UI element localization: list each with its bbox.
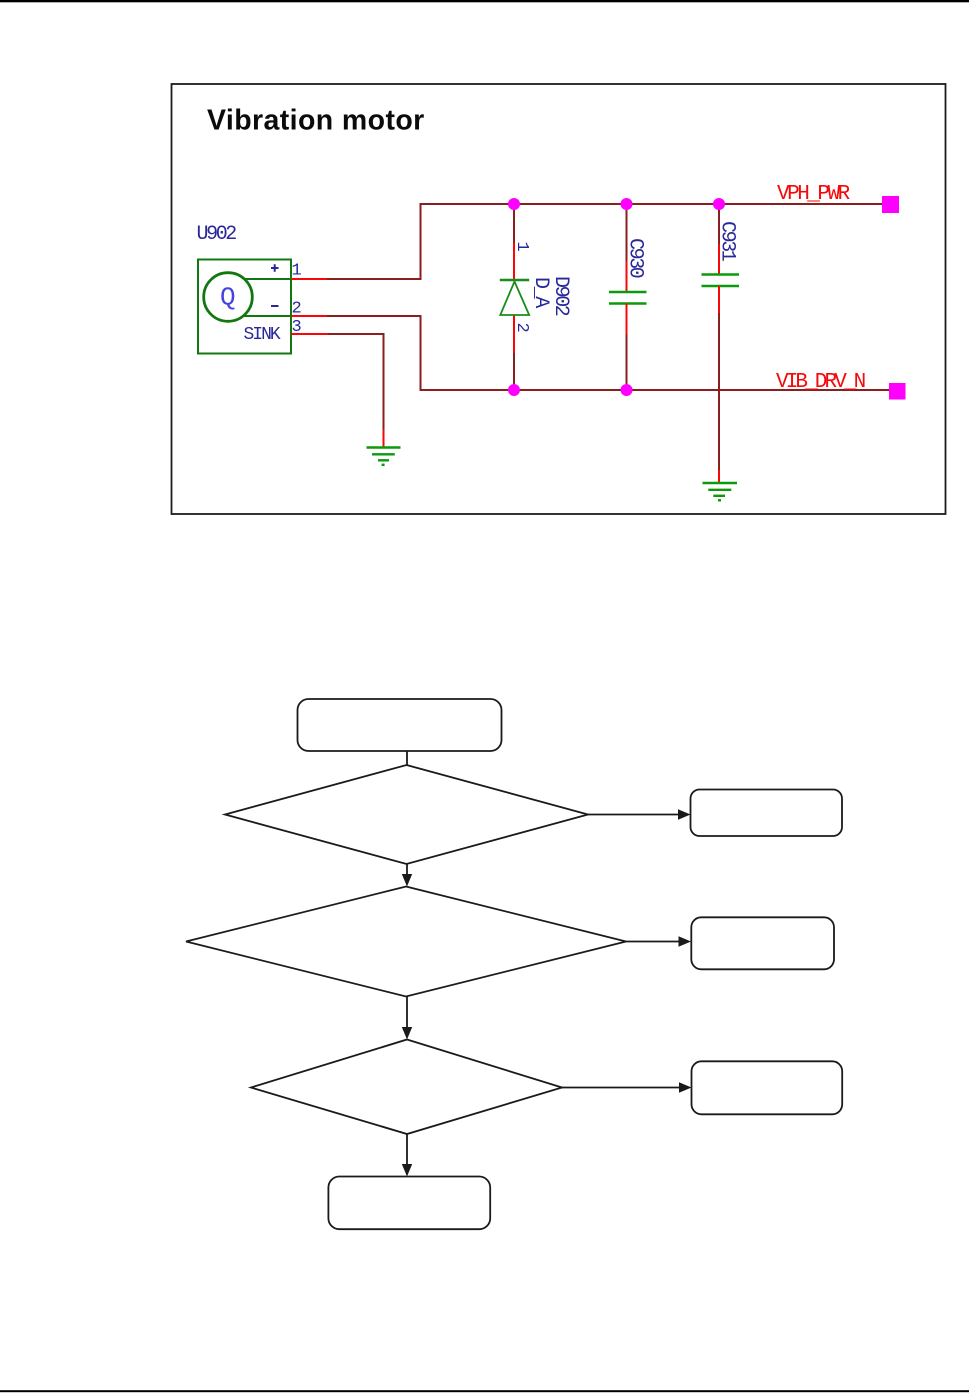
motor U902 circle bbox=[204, 273, 253, 322]
svg-text:C930: C930 bbox=[624, 238, 647, 278]
svg-text:D_A: D_A bbox=[529, 277, 552, 308]
flowchart decision diamond 3 bbox=[251, 1040, 562, 1135]
wire left vertical lower bbox=[420, 315, 422, 391]
capacitor C931 pin stub top bbox=[718, 244, 720, 274]
pin 1 stub bbox=[291, 278, 327, 280]
svg-text:C931: C931 bbox=[716, 221, 739, 262]
ground GND1 pin stub bbox=[383, 430, 385, 448]
svg-text:U902: U902 bbox=[197, 223, 237, 246]
flowchart connector start to decision1 bbox=[406, 751, 408, 765]
capacitor C931 pin stub bottom bbox=[718, 286, 720, 313]
flowchart result box 1 bbox=[691, 790, 843, 837]
capacitor C931 top wire dark bbox=[718, 204, 720, 244]
wire pin3 vertical to ground bbox=[383, 333, 385, 430]
svg-text:SINK: SINK bbox=[244, 325, 281, 345]
flowchart arrow decision1 to decision2 bbox=[402, 864, 412, 887]
capacitor C931 wire to ground bbox=[718, 313, 720, 470]
capacitor C930 top wire dark bbox=[626, 204, 628, 261]
flowchart arrow decision3 to result box 3 bbox=[562, 1082, 692, 1092]
wire bottom rail VIB_DRV_N bbox=[420, 389, 891, 391]
diode D902 pin2 stub bbox=[513, 316, 515, 354]
wire pin2 to left vertical bbox=[327, 315, 421, 317]
motor U902 body box bbox=[198, 260, 291, 354]
svg-text:VIB_DRV_N: VIB_DRV_N bbox=[776, 371, 865, 394]
junction dot bottom rail at diode bbox=[508, 384, 520, 396]
flowchart result box 2 bbox=[691, 917, 834, 969]
capacitor C930 bottom wire dark bbox=[626, 335, 628, 391]
diode D902 pin1 stub bbox=[513, 243, 515, 281]
port square VPH_PWR bbox=[882, 196, 899, 213]
svg-text:VPH_PWR: VPH_PWR bbox=[777, 183, 851, 206]
port square VIB_DRV_N bbox=[889, 383, 906, 400]
junction dot top rail at C931 bbox=[713, 198, 725, 210]
page top rule bbox=[0, 0, 969, 2]
wire top rail VPH_PWR bbox=[420, 203, 884, 205]
wire pin1 to left vertical bbox=[327, 278, 421, 280]
junction dot top rail at diode bbox=[508, 198, 520, 210]
wire left vertical upper bbox=[420, 203, 422, 280]
svg-text:Vibration motor: Vibration motor bbox=[207, 105, 425, 137]
capacitor C930 plates bbox=[609, 292, 647, 304]
ground GND2 symbol bbox=[703, 483, 738, 500]
ground GND2 pin stub bbox=[718, 470, 720, 483]
motor internal lead pin2 bbox=[244, 315, 291, 317]
flowchart result box 3 bbox=[692, 1061, 843, 1114]
flowchart decision diamond 2 bbox=[186, 887, 626, 997]
svg-text:Q: Q bbox=[220, 283, 236, 313]
motor internal lead pin1 bbox=[245, 278, 292, 280]
capacitor C930 pin stub top bbox=[626, 261, 628, 292]
diode D902 top wire dark bbox=[513, 204, 515, 243]
flowchart end box bbox=[328, 1177, 490, 1230]
pin 3 stub bbox=[291, 333, 328, 335]
svg-text:1: 1 bbox=[292, 262, 302, 281]
junction dot top rail at C930 bbox=[621, 198, 633, 210]
flowchart arrow decision3 to end box bbox=[402, 1134, 412, 1177]
flowchart decision diamond 1 bbox=[225, 765, 588, 864]
flowchart start box bbox=[298, 699, 502, 751]
diode D902 symbol bbox=[500, 280, 529, 315]
junction dot bottom rail at C930 bbox=[621, 384, 633, 396]
capacitor C930 pin stub bottom bbox=[626, 304, 628, 335]
wire pin3 horizontal bbox=[328, 333, 384, 335]
pin 2 stub bbox=[291, 315, 327, 317]
motor U902 minus mark bbox=[271, 305, 279, 307]
flowchart arrow decision2 to result box 2 bbox=[626, 936, 691, 946]
schematic frame bbox=[172, 84, 946, 514]
svg-text:1: 1 bbox=[512, 242, 531, 252]
motor U902 plus mark bbox=[271, 264, 279, 272]
capacitor C931 plates bbox=[702, 275, 740, 287]
flowchart arrow decision1 to result box 1 bbox=[588, 809, 691, 819]
diode D902 bottom wire dark bbox=[513, 353, 515, 390]
ground GND1 symbol bbox=[367, 448, 401, 465]
page bottom rule bbox=[0, 1390, 969, 1392]
flowchart arrow decision2 to decision3 bbox=[402, 997, 412, 1040]
